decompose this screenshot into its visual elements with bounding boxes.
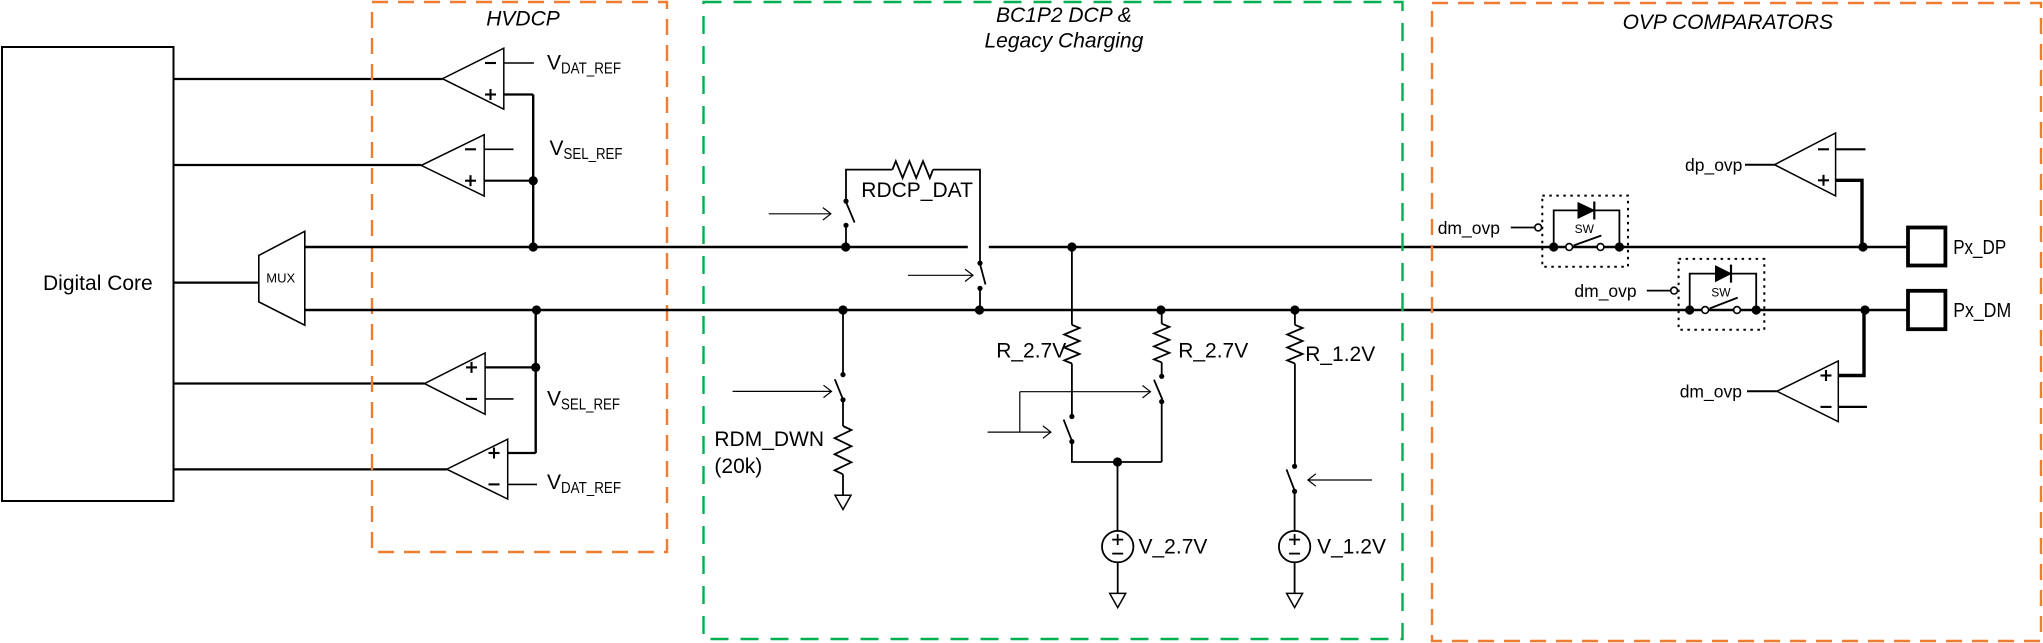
ground GND2	[1110, 593, 1126, 607]
node junction V2.7 join	[1113, 457, 1122, 466]
node junction U5/DP bus	[1858, 242, 1867, 251]
SW box 2 dotted frame	[1679, 259, 1765, 330]
BC1P2 region box	[704, 2, 1403, 639]
node junction (535.7,367.4)	[531, 363, 540, 372]
svg-text:R_2.7V: R_2.7V	[1178, 340, 1248, 363]
svg-text:RDCP_DAT: RDCP_DAT	[861, 179, 973, 202]
node junction (536.5,310) on DM bus	[532, 305, 541, 314]
wire join to V_2.7V	[1117, 462, 1119, 531]
switch SW_RDM	[835, 372, 846, 402]
wire R27b upper	[1161, 310, 1163, 324]
wire to resistor RDM_DWN	[842, 400, 844, 426]
wire core to comparator U1	[174, 78, 443, 80]
svg-text:V_2.7V: V_2.7V	[1139, 536, 1208, 559]
wire R27a to switch	[1071, 364, 1073, 417]
MUX M1	[259, 231, 305, 325]
control bracket for R2.7 switches	[988, 386, 1151, 439]
svg-text:Digital Core: Digital Core	[43, 272, 153, 295]
wire resistor to ground	[842, 474, 844, 495]
arrow control SW_DP	[769, 208, 831, 220]
wire RDCP_DAT top left	[846, 170, 892, 202]
pad Px_DM	[1908, 291, 2011, 329]
ground GND1	[835, 495, 851, 509]
wire R27b to switch	[1161, 362, 1163, 376]
svg-text:Px_DM: Px_DM	[1953, 299, 2011, 322]
svg-text:dp_ovp: dp_ovp	[1685, 155, 1742, 176]
svg-text:(20k): (20k)	[714, 455, 762, 478]
diode D2 branch	[1690, 265, 1757, 310]
op-amp U4 (comparator, V_DAT_REF lower)	[447, 439, 537, 499]
switch SW_R27a	[1064, 414, 1075, 444]
SW box 1 dotted frame	[1542, 196, 1628, 267]
svg-text:dm_ovp: dm_ovp	[1574, 281, 1636, 302]
op-amp U3 (comparator, V_SEL_REF lower)	[425, 353, 536, 414]
resistor R_2.7V (right)	[1154, 324, 1169, 363]
node junction R27a/DP bus	[1067, 242, 1076, 251]
wire core to comparator U2	[174, 164, 422, 166]
source V_1.2V	[1279, 531, 1310, 562]
HVDCP region box	[372, 2, 667, 552]
wire core to MUX	[174, 282, 259, 284]
switch SW1 contacts	[1549, 222, 1624, 252]
source V_2.7V	[1102, 531, 1133, 562]
svg-text:Px_DP: Px_DP	[1953, 236, 2006, 259]
dm_ovp control 1	[1438, 218, 1542, 239]
wire R12 upper	[1294, 310, 1296, 325]
svg-text:RDM_DWN: RDM_DWN	[714, 428, 824, 451]
svg-text:R_1.2V: R_1.2V	[1305, 343, 1375, 366]
wire dp_ovp label to U5	[1745, 164, 1775, 166]
svg-text:Legacy Charging: Legacy Charging	[985, 30, 1144, 53]
wire R12 to switch	[1294, 364, 1296, 467]
wire vertical ref bus lower (x=535.7)	[535, 310, 537, 453]
node junction RDCP/DP bus	[841, 242, 850, 251]
wire dm_ovp label to U6	[1747, 390, 1777, 392]
svg-text:R_2.7V: R_2.7V	[996, 340, 1066, 363]
svg-text:MUX: MUX	[266, 270, 295, 285]
wire RDM_DWN upper	[842, 310, 844, 375]
wire core to comparator U4	[174, 468, 447, 470]
op-amp U1 (comparator, V_DAT_REF upper)	[442, 48, 534, 109]
node junction U6/DM bus	[1860, 305, 1869, 314]
svg-text:SW: SW	[1711, 285, 1731, 299]
node junction R12/DM bus	[1290, 305, 1299, 314]
node junction (533,247) on DP bus	[529, 242, 538, 251]
wire RDCP_DAT top right	[933, 170, 980, 264]
pad Px_DP	[1908, 228, 2006, 266]
switch SW_R12	[1287, 464, 1298, 494]
op-amp U6 dm_ovp	[1777, 310, 1867, 422]
svg-text:V_1.2V: V_1.2V	[1317, 536, 1386, 559]
node junction RDM/DM bus	[838, 305, 847, 314]
node junction (533,180.7)	[529, 176, 538, 185]
svg-text:dm_ovp: dm_ovp	[1680, 382, 1742, 403]
resistor RDCP_DAT	[892, 161, 933, 178]
Digital Core block U_CORE	[2, 47, 174, 501]
svg-text:dm_ovp: dm_ovp	[1438, 218, 1500, 239]
switch SW_DP (RDCP to DP)	[843, 199, 854, 248]
diode D1 branch	[1554, 202, 1620, 248]
op-amp U5 dp_ovp	[1775, 133, 1866, 247]
node junction RDCP/DM bus	[975, 305, 984, 314]
switch SW2 contacts	[1685, 285, 1761, 314]
wire vertical ref bus upper (x=533)	[532, 95, 534, 248]
arrow control SW_RDM	[733, 385, 832, 397]
wire DP bus (right part)	[989, 246, 1908, 248]
OVP region box	[1432, 3, 2041, 641]
ground GND3	[1287, 593, 1303, 607]
dm_ovp control 2	[1574, 281, 1677, 302]
svg-text:SW: SW	[1575, 222, 1595, 236]
svg-text:BC1P2 DCP &: BC1P2 DCP &	[996, 4, 1132, 27]
arrow control SW_R12 (points left)	[1308, 474, 1372, 486]
resistor RDM_DWN (20k)	[835, 426, 852, 474]
wire switch to V_1.2V	[1294, 491, 1296, 531]
switch SW_R27b	[1154, 374, 1164, 405]
resistor R_1.2V	[1287, 325, 1302, 364]
wire V_1.2V to ground	[1294, 562, 1296, 593]
wire SW_R27a down to join	[1072, 442, 1162, 462]
resistor R_2.7V (left)	[1064, 325, 1079, 364]
svg-text:OVP COMPARATORS: OVP COMPARATORS	[1623, 11, 1833, 34]
wire core to comparator U3	[174, 382, 425, 384]
arrow control SW_DM	[908, 269, 973, 281]
switch SW_DM (RDCP to DM)	[977, 261, 985, 311]
wire SW_R27b down to join	[1161, 402, 1163, 462]
svg-text:HVDCP: HVDCP	[486, 7, 560, 30]
wire DM bus	[305, 309, 1908, 311]
wire R27a upper	[1071, 247, 1073, 325]
op-amp U2 (comparator, V_SEL_REF upper)	[421, 135, 533, 196]
node junction R27b/DM bus	[1156, 305, 1165, 314]
wire V_2.7V to ground	[1117, 562, 1119, 593]
wire DP bus (left part)	[305, 246, 968, 248]
